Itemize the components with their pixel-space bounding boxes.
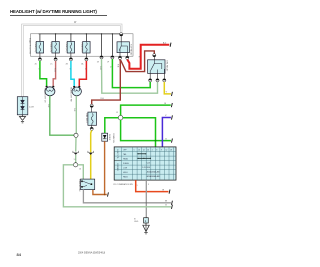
fuse F3 <box>65 42 75 58</box>
relay2 pins <box>149 79 152 82</box>
combination switch table <box>112 133 176 186</box>
svg-text:HEAD(RH): HEAD(RH) <box>80 43 83 53</box>
svg-text:HEADLIGHT (w/ DAYTIME RUNNING: HEADLIGHT (w/ DAYTIME RUNNING LIGHT) <box>10 9 97 14</box>
svg-text:PASS: PASS <box>123 176 128 179</box>
pin A <box>100 56 103 59</box>
svg-text:D-DR: D-DR <box>29 106 35 108</box>
pin B <box>111 56 114 59</box>
svg-text:9: 9 <box>161 149 162 151</box>
svg-text:5-13 13-16: 5-13 13-16 <box>142 167 150 169</box>
pin fuse3 <box>69 58 72 61</box>
continuity bars and condition text <box>138 154 150 159</box>
pin fuse4 <box>85 58 88 61</box>
arrow end A <box>163 41 171 46</box>
wire yellow DRL fuse to dimmer switch <box>91 130 92 179</box>
wire green junction down to arrow <box>121 120 171 141</box>
bulb down wire RH pale <box>75 96 77 133</box>
wire white W: from top corner to DRL diode module <box>22 25 121 97</box>
svg-text:HEAD(LH): HEAD(LH) <box>34 43 37 53</box>
green net junction circle <box>118 115 123 120</box>
wire red F4 to RH high <box>79 61 86 86</box>
svg-text:TAIL: TAIL <box>123 153 127 156</box>
svg-text:G-W: G-W <box>99 66 101 70</box>
fuse F4 <box>80 42 90 58</box>
svg-text:5: 5 <box>134 149 135 151</box>
svg-text:2004 SIENNA (EWD546U): 2004 SIENNA (EWD546U) <box>78 252 105 255</box>
wire cyan F3 to RH low <box>71 61 74 86</box>
wire gray dimmer to arrow <box>83 190 170 203</box>
wire labels top <box>38 68 87 72</box>
svg-text:16: 16 <box>147 149 149 151</box>
title HEADLIGHT (w/ DAYTIME RUNNING LIGHT) <box>10 9 107 15</box>
svg-text:8: 8 <box>156 149 157 151</box>
junction circle 2 <box>74 163 78 167</box>
svg-text:18: 18 <box>170 149 172 151</box>
wire orange diode to node <box>104 141 106 194</box>
svg-text:COMB SW: COMB SW <box>112 133 114 143</box>
fuse F2 <box>50 42 60 58</box>
svg-text:HEAD(LH): HEAD(LH) <box>50 43 53 53</box>
wire pale green junction2 right to dimmer box <box>78 165 84 179</box>
wire dark red DRL fuse F5 <box>85 104 96 130</box>
wire purple table to arrow <box>162 118 171 147</box>
wire dark red pin C to DRL fuse <box>92 60 121 105</box>
svg-text:LIGHT CTL: LIGHT CTL <box>116 150 118 159</box>
wire green junction right to table <box>123 118 156 147</box>
wire green junction left to diode <box>105 118 119 134</box>
svg-text:LOW: LOW <box>123 168 127 170</box>
svg-text:Engine Room R/B: Engine Room R/B <box>28 38 30 55</box>
bus junction dots <box>55 33 113 34</box>
pin fuse2 <box>54 58 57 61</box>
svg-text:J5: J5 <box>116 112 118 114</box>
wire pale green to junction2 <box>75 155 77 163</box>
headlight LH <box>43 86 55 103</box>
ground under diode module <box>19 115 25 123</box>
junction circle 1 <box>74 133 78 137</box>
svg-text:DRL NO.2: DRL NO.2 <box>85 114 87 124</box>
bulb down wire LH green <box>50 96 74 135</box>
svg-text:16: 16 <box>79 169 81 171</box>
fuse F1 HEAD (LH) <box>34 42 44 58</box>
wire pale green pin A to DRL relay2 <box>102 59 158 93</box>
svg-text:DIMMER SW: DIMMER SW <box>78 180 80 192</box>
wire red table to arrow <box>136 180 169 192</box>
wire dark red branch to relay2 coil <box>121 51 155 72</box>
wire gray table to ground <box>145 180 147 218</box>
svg-text:84: 84 <box>17 252 22 257</box>
svg-text:9: 9 <box>148 184 149 186</box>
engine room R/B outline <box>31 34 134 56</box>
svg-text:14: 14 <box>143 149 145 151</box>
svg-text:FLASH: FLASH <box>123 162 129 165</box>
inline connector 1 <box>73 151 79 155</box>
pin fuse1 <box>38 58 41 61</box>
svg-text:13: 13 <box>138 149 140 151</box>
row label text <box>134 149 172 151</box>
svg-text:HEAD(RH): HEAD(RH) <box>65 43 68 53</box>
DRL diode <box>102 133 110 141</box>
ground connector box <box>134 218 148 224</box>
wire pale green junction2 left to bottom arrow <box>63 165 170 207</box>
R/B pin row circles <box>38 53 129 61</box>
svg-text:12: 12 <box>166 149 168 151</box>
relay pin 2 <box>126 56 129 59</box>
wire pale green down from junction1 <box>75 137 77 151</box>
headlight relay U1 <box>117 33 133 57</box>
wire yellow relay2 to arrow <box>164 82 171 94</box>
wire pink F2 to LH high <box>53 61 55 86</box>
svg-text:5-13: 5-13 <box>147 163 150 165</box>
bus bar (inside R/B) <box>39 34 120 56</box>
svg-text:HIGH: HIGH <box>123 172 128 174</box>
svg-text:1: 1 <box>137 185 138 187</box>
svg-text:HEADLIGHT RH: HEADLIGHT RH <box>70 87 73 102</box>
svg-text:H-LP RELAY: H-LP RELAY <box>130 44 133 56</box>
headlight RH <box>70 86 82 102</box>
wire orange node horizontal <box>93 190 107 195</box>
svg-text:DIODE: DIODE <box>108 134 110 141</box>
DRL relay (relay2) <box>148 54 169 82</box>
svg-text:2: 2 <box>152 149 153 151</box>
wire green F1 to LH low <box>40 61 47 86</box>
svg-text:HEADLIGHT LH: HEADLIGHT LH <box>43 88 46 103</box>
relay pin 1 <box>118 56 121 59</box>
ground symbol <box>143 223 150 234</box>
svg-text:GND: GND <box>134 221 139 223</box>
wire bright green pin B to DRL relay2 <box>112 59 150 88</box>
svg-text:DIMMER: DIMMER <box>116 164 118 172</box>
misc tiny wire labels <box>47 56 149 187</box>
wire green junction up to arrow B <box>121 105 171 115</box>
svg-text:C13 COMBINATION SW: C13 COMBINATION SW <box>113 183 133 186</box>
svg-text:R-W: R-W <box>53 68 55 72</box>
svg-text:HEAD: HEAD <box>123 158 129 161</box>
svg-text:G: G <box>165 138 167 140</box>
wire bright red relay out to arrow A <box>127 45 169 69</box>
DRL diode module (left) <box>17 97 34 115</box>
svg-text:DRL RELAY: DRL RELAY <box>166 61 169 73</box>
inline connector 2 (yellow) <box>88 151 94 155</box>
dimmer switch box <box>78 179 95 191</box>
svg-text:1J: 1J <box>74 159 76 161</box>
svg-text:G: G <box>165 205 167 207</box>
